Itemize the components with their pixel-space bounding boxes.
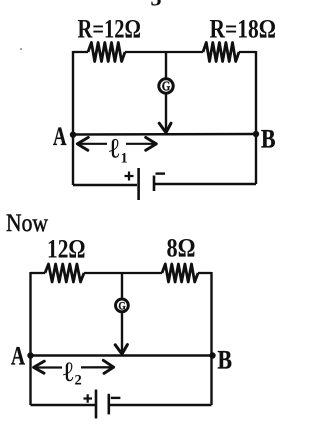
resistor R=12Ω xyxy=(88,43,125,62)
wire bottom circuit: left vertical xyxy=(29,272,31,405)
wire bottom circuit: top-right segment xyxy=(198,272,212,274)
wire AB (bottom circuit middle) xyxy=(31,354,213,356)
node B (bottom) xyxy=(209,352,215,358)
wire bottom circuit: top-middle segment xyxy=(84,272,162,274)
svg-text:Now: Now xyxy=(6,208,48,237)
galvanometer G (bottom circuit) xyxy=(116,299,129,312)
jockey wire with arrow (bottom) xyxy=(121,313,123,354)
svg-text:G: G xyxy=(118,299,125,313)
resistor R=18Ω xyxy=(203,43,239,62)
resistor 8Ω xyxy=(162,264,198,282)
galvanometer G (top circuit) xyxy=(159,79,173,93)
svg-text:B: B xyxy=(218,346,233,375)
svg-text:R=18Ω: R=18Ω xyxy=(210,15,277,44)
node B (top) xyxy=(253,131,259,137)
node A (bottom) xyxy=(27,352,33,358)
wire bottom of bottom circuit (right of battery) xyxy=(109,404,212,406)
length l2 double arrow xyxy=(34,366,113,369)
wire top circuit: top-middle segment xyxy=(125,51,203,53)
battery cell (top circuit) xyxy=(137,168,140,200)
wire bottom of top circuit (left of battery) xyxy=(73,184,137,186)
wire bottom of top circuit (right of battery) xyxy=(154,183,256,185)
svg-text:ℓ: ℓ xyxy=(109,134,120,165)
svg-text:2: 2 xyxy=(75,373,82,389)
resistor 12Ω xyxy=(45,264,84,282)
svg-text:B: B xyxy=(261,125,276,154)
wire top circuit: right vertical xyxy=(255,51,257,184)
galvanometer branch wire (top) xyxy=(165,52,167,78)
wire top circuit: top-left segment xyxy=(73,51,88,53)
wire bottom circuit: right vertical xyxy=(210,272,212,405)
wire top circuit: top-right segment xyxy=(239,51,256,53)
partial digit 3 at top edge xyxy=(151,0,162,11)
svg-text:A: A xyxy=(11,342,25,371)
jockey wire with arrow (top) xyxy=(165,95,167,133)
wire AB (top circuit middle) xyxy=(73,133,256,136)
plus sign xyxy=(125,172,134,181)
svg-text:A: A xyxy=(53,122,67,151)
svg-text:G: G xyxy=(162,78,171,93)
svg-text:R=12Ω: R=12Ω xyxy=(78,15,142,44)
svg-text:12Ω: 12Ω xyxy=(47,235,86,264)
battery cell (bottom circuit) xyxy=(95,390,98,419)
svg-text:ℓ: ℓ xyxy=(63,357,74,388)
svg-text:3: 3 xyxy=(151,0,162,11)
node A (top) xyxy=(70,132,76,138)
wire bottom of bottom circuit (left of battery) xyxy=(31,404,96,406)
length l1 double arrow xyxy=(77,143,157,145)
svg-text:1: 1 xyxy=(121,151,128,167)
plus sign xyxy=(84,394,93,402)
scan speck xyxy=(20,48,22,50)
wire top circuit: left vertical xyxy=(72,51,74,185)
svg-text:8Ω: 8Ω xyxy=(167,234,196,263)
wire bottom circuit: top-left segment xyxy=(31,272,46,274)
minus sign xyxy=(156,172,166,174)
galvanometer branch wire (bottom) xyxy=(121,273,123,298)
minus sign xyxy=(111,397,121,399)
